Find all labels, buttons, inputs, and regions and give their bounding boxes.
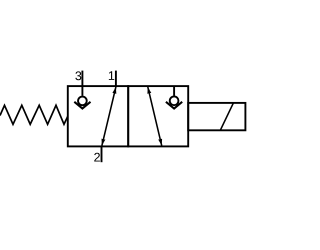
port 1 label [109, 71, 114, 80]
port 2 label [94, 153, 100, 162]
flow path arrow right box (double headed) [148, 87, 162, 146]
flow path arrow left box (ports 2-1, double headed) [102, 87, 116, 146]
closed port seat symbol right box (stub line) [173, 86, 175, 96]
valve body left box (position a) [68, 86, 128, 146]
closed port seat symbol right box (ball circle) [170, 96, 179, 105]
closed port seat symbol right box (V seat) [166, 102, 182, 109]
port 3 label [75, 71, 81, 80]
solenoid diagonal line [220, 103, 233, 130]
closed port seat symbol left box (stub line) [81, 86, 83, 96]
closed port seat symbol left box (V seat) [74, 102, 90, 109]
return spring [0, 105, 68, 124]
closed port seat symbol left box (ball circle) [78, 97, 87, 106]
solenoid actuator box [188, 103, 245, 130]
valve body right box (position b) [128, 86, 188, 146]
port 3 line [81, 71, 83, 87]
port 2 line [101, 146, 103, 162]
port 1 line [115, 71, 117, 87]
